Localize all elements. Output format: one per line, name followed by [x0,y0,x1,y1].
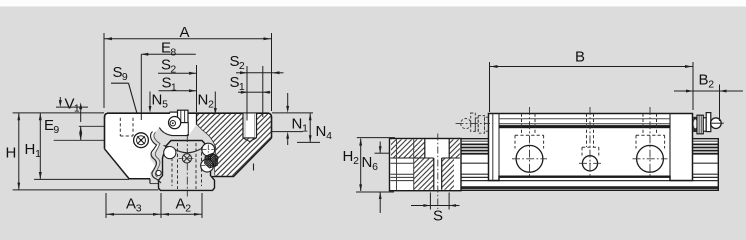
rail end inner verticals [396,139,398,190]
thread hole white column in section [243,114,257,138]
section hatch top-right [450,140,460,159]
ball lower right [201,159,214,172]
top-right corner arc [269,113,272,117]
A3 dimension [105,193,107,218]
svg-text:2: 2 [708,79,714,91]
thread hole exit tick on chamfer [253,164,255,171]
svg-text:4: 4 [326,130,332,142]
svg-text:H: H [343,148,354,165]
dimension N6 [375,152,391,154]
hidden nipple centerline [456,123,491,125]
svg-text:2: 2 [208,99,214,111]
rail cross-section profile [159,141,215,191]
section hatched body right half [197,114,271,176]
svg-text:6: 6 [372,161,378,173]
nipple ball head [711,118,722,129]
top edge raised strip [170,111,187,113]
block top dark band [499,125,670,128]
svg-text:3: 3 [136,203,142,215]
left end seal lines [492,114,494,181]
svg-text:N: N [316,123,327,140]
block bottom left [128,178,150,180]
raceway insert crosshatched [205,153,219,168]
section hatch bottom-left [414,158,434,190]
hidden tabs from top edge right [642,114,644,136]
funnel lube port [178,110,189,122]
runner block front outline [105,113,272,184]
A2 dimension [161,213,202,215]
seal contour left flank [151,132,162,184]
svg-text:1: 1 [171,82,177,94]
block inner cavity (shows background) [150,125,216,184]
svg-text:1: 1 [302,123,308,135]
section hatch bottom-right [442,158,454,190]
svg-text:A: A [180,24,190,41]
svg-text:8: 8 [170,47,176,59]
left 45 chamfer [105,149,129,179]
dimension S [429,193,431,210]
counterbore outline [424,139,426,159]
hidden pocket above right hole [636,134,665,136]
svg-text:N: N [292,116,303,133]
dimension B2 [719,85,721,122]
rail groove stripe lines [461,140,719,142]
ball upper right [202,143,215,156]
svg-text:9: 9 [122,71,128,83]
block bottom right [211,176,234,178]
dimension S2 left [158,72,196,74]
rail fixing bolt head [182,154,191,163]
svg-text:N: N [152,92,163,109]
left lip step [149,179,151,184]
dimension S2 right group [246,66,248,121]
svg-text:5: 5 [162,99,168,111]
svg-text:B: B [575,49,585,66]
small roller circle on seal lip [156,170,161,175]
dimension A [103,33,105,108]
right end cap line [669,114,671,177]
block inner arch over rail [164,146,212,153]
guide rail side view body [389,138,719,191]
hidden thread hole left (dashed) [119,118,121,136]
nipple cylinder [706,113,711,132]
svg-text:A: A [126,196,136,213]
section inner contour [197,114,216,176]
through hole walls [433,158,435,190]
hidden tabs from top edge left [521,114,523,136]
svg-text:1: 1 [239,81,245,93]
block top thin lines [499,118,670,120]
right mounting hole circle [637,145,664,172]
top surface extension left [13,112,104,114]
block right edge [271,117,273,138]
dimension B [489,62,491,112]
nipple washer [703,118,706,131]
S2/S1 extension line [196,65,198,112]
dimension N2 arrow [214,92,216,110]
block left edge [104,117,106,149]
section hatch top-left [391,140,425,159]
right 45 chamfer [233,138,271,177]
rail hidden through hole [177,143,179,189]
dimension S1 right group [238,91,248,93]
svg-text:2: 2 [185,203,191,215]
top-left corner arc [105,113,108,117]
dimension E8 [140,54,142,120]
left mounting hole circle [516,145,543,172]
small side lube hole circle [582,156,597,171]
svg-text:2: 2 [353,155,359,167]
hidden lines above small hole [586,114,588,148]
svg-text:9: 9 [53,124,59,136]
svg-text:2: 2 [239,60,245,72]
lube port screw S9 head [134,133,149,148]
centerlines of holes [529,107,531,178]
rail side lines within section lower left [391,162,414,164]
hole centerline [437,134,439,210]
white top strip [0,0,746,7]
dimension S1 left [159,90,197,92]
svg-text:H: H [25,141,36,158]
thread minor lines [244,114,246,137]
crosshair horizontals [512,158,547,160]
svg-text:A: A [176,196,186,213]
hidden grease nipple left (dashed) [484,117,486,131]
dimension H2 [357,137,395,139]
svg-text:B: B [699,72,709,89]
rail centerline [186,134,188,197]
block top edge [107,112,269,114]
ball left [164,147,176,159]
svg-text:N: N [362,154,373,171]
rail end cross-section with mounting hole [390,139,462,191]
dimension N5 arrow [149,92,151,108]
svg-text:H: H [6,145,17,162]
svg-text:S: S [433,208,443,224]
runner block side view outline [489,114,693,181]
svg-text:N: N [198,92,209,109]
rail bottom chamfer dark band [390,186,719,189]
rail hidden counterbore [171,147,173,186]
hidden pocket above left hole [515,134,544,136]
grease nipple flange [693,117,697,132]
bottom extension lines [13,189,159,191]
right lip step [210,177,212,184]
nipple body [697,115,703,134]
hidden counterbore box small hole [582,146,599,148]
